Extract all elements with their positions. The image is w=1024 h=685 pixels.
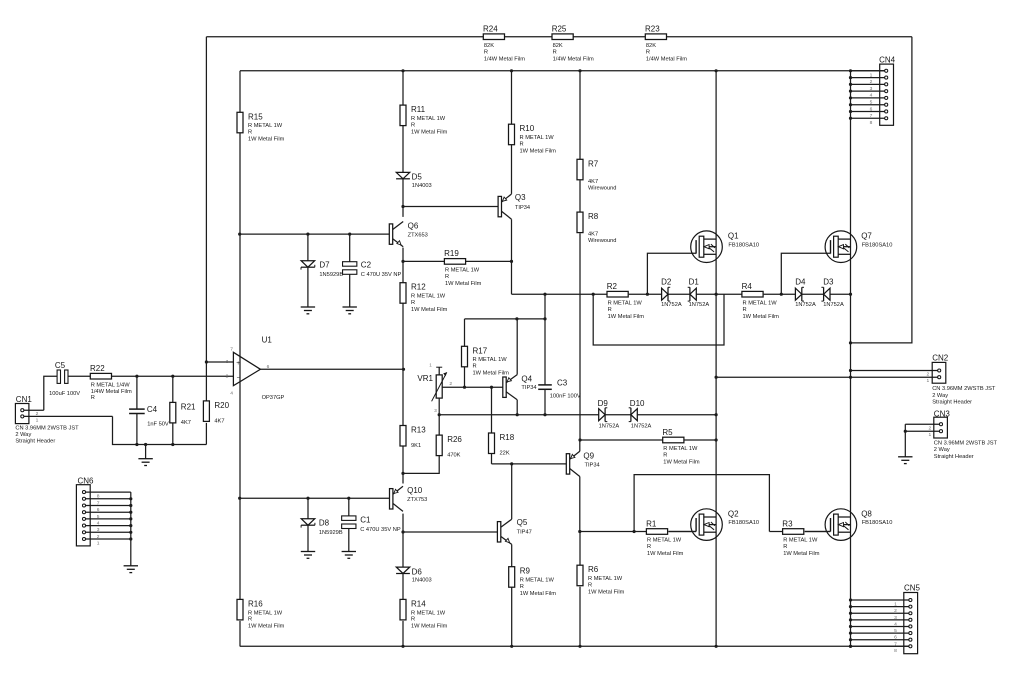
wire left border x=206.4: [205, 37, 207, 362]
svg-text:1N5929B: 1N5929B: [319, 272, 343, 278]
svg-text:R METAL 1W: R METAL 1W: [411, 294, 446, 300]
svg-text:D8: D8: [319, 519, 330, 528]
resistor R13: [400, 426, 426, 450]
svg-text:2: 2: [894, 608, 897, 614]
node + input junction: [205, 360, 208, 363]
svg-text:R METAL 1W: R METAL 1W: [608, 300, 643, 306]
svg-text:TIP34: TIP34: [585, 463, 600, 469]
svg-text:3: 3: [226, 359, 229, 365]
wire R5 row y=440: [580, 439, 716, 441]
transistor Q10: [390, 486, 428, 512]
resistor R23: [645, 25, 687, 63]
svg-text:Q10: Q10: [407, 486, 423, 495]
svg-text:1: 1: [928, 432, 931, 438]
resistor R2: [607, 282, 645, 320]
svg-text:82K: 82K: [646, 43, 656, 49]
wire op-amp - input y=376.2: [112, 375, 234, 377]
wire V+/V- rail x=850.5: [850, 71, 852, 647]
node Q5 collector junction: [510, 462, 513, 465]
svg-text:Q5: Q5: [517, 518, 528, 527]
node junctions Q10 base rail: [238, 497, 350, 500]
svg-text:CN6: CN6: [78, 477, 95, 486]
connector CN6: [76, 477, 130, 547]
svg-text:4K7: 4K7: [214, 418, 224, 424]
resistor R19 with row wire: [403, 249, 512, 287]
svg-text:470K: 470K: [447, 453, 460, 459]
svg-text:R METAL 1W: R METAL 1W: [248, 123, 283, 129]
svg-text:Q7: Q7: [861, 232, 872, 241]
wire vertical x=240 through R15, op-amp, R16: [239, 71, 241, 647]
svg-text:1W Metal Film: 1W Metal Film: [743, 314, 780, 320]
node junctions on Q6 base rail: [238, 233, 351, 236]
connector CN1: [15, 395, 112, 445]
svg-text:R: R: [647, 544, 651, 550]
svg-text:R METAL 1W: R METAL 1W: [783, 538, 818, 544]
svg-text:C 470U 35V NP: C 470U 35V NP: [361, 272, 402, 278]
wire Q10 base rail y=498.2: [240, 497, 390, 499]
svg-text:R: R: [473, 364, 477, 370]
svg-text:R10: R10: [520, 124, 535, 133]
svg-text:R: R: [553, 49, 557, 55]
svg-text:R: R: [91, 395, 95, 401]
svg-text:1/4W Metal Film: 1/4W Metal Film: [553, 56, 594, 62]
svg-text:8: 8: [97, 494, 100, 500]
svg-text:Straight Header: Straight Header: [932, 399, 972, 405]
resistor R16: [237, 599, 285, 629]
capacitor C1: [342, 498, 401, 551]
wire bias row y=414.7: [439, 414, 716, 416]
wire rail to CN2 pin2 y=370.5: [851, 370, 938, 372]
svg-text:R METAL 1W: R METAL 1W: [445, 268, 480, 274]
svg-text:R: R: [663, 453, 667, 459]
svg-text:R METAL 1W: R METAL 1W: [248, 610, 283, 616]
svg-text:R METAL 1W: R METAL 1W: [743, 300, 778, 306]
svg-text:CN 3.96MM 2WSTB JST: CN 3.96MM 2WSTB JST: [15, 425, 79, 431]
svg-text:Wirewound: Wirewound: [588, 185, 616, 191]
svg-text:8: 8: [894, 648, 897, 654]
node junctions bottom rail: [401, 645, 852, 648]
svg-text:1: 1: [926, 378, 929, 384]
resistor R8: [577, 212, 616, 244]
connector CN5: [851, 584, 921, 654]
node R26 to R13 junction: [401, 472, 404, 475]
svg-text:3: 3: [894, 615, 897, 621]
svg-text:R1: R1: [646, 519, 657, 528]
connector CN4: [851, 55, 896, 125]
svg-text:R8: R8: [588, 212, 599, 221]
svg-text:R: R: [588, 583, 592, 589]
svg-text:7: 7: [97, 500, 100, 506]
svg-text:2: 2: [870, 79, 873, 85]
svg-text:R20: R20: [214, 401, 229, 410]
svg-text:1W Metal Film: 1W Metal Film: [647, 551, 684, 557]
ground CN6: [124, 566, 138, 573]
svg-text:R METAL 1W: R METAL 1W: [411, 116, 446, 122]
svg-text:R METAL 1W: R METAL 1W: [520, 578, 555, 584]
svg-text:1/4W Metal Film: 1/4W Metal Film: [91, 389, 132, 395]
resistor R11: [400, 105, 448, 135]
svg-text:5: 5: [870, 100, 873, 106]
diode D10 zener: [629, 399, 652, 429]
svg-text:1W Metal Film: 1W Metal Film: [663, 460, 700, 466]
resistor R18: [489, 387, 515, 464]
svg-text:1W Metal Film: 1W Metal Film: [445, 281, 482, 287]
svg-text:1N4003: 1N4003: [412, 183, 432, 189]
svg-text:D6: D6: [412, 567, 423, 576]
svg-text:6: 6: [870, 106, 873, 112]
ground input network: [138, 445, 152, 466]
svg-text:D3: D3: [823, 278, 834, 287]
diode D8 zener: [301, 498, 343, 551]
svg-text:2: 2: [926, 371, 929, 377]
wire top supply rail y=36.7: [206, 36, 912, 38]
svg-text:R5: R5: [662, 428, 673, 437]
wire bottom rail y=646.3: [240, 645, 909, 647]
svg-text:R21: R21: [181, 402, 196, 411]
diode D9 zener: [598, 399, 620, 429]
svg-text:ZTX653: ZTX653: [408, 233, 428, 239]
svg-text:7: 7: [894, 641, 897, 647]
svg-text:C2: C2: [361, 261, 372, 270]
svg-text:100uF 100V: 100uF 100V: [49, 391, 80, 397]
svg-text:R: R: [411, 617, 415, 623]
svg-text:CN2: CN2: [932, 354, 949, 363]
svg-text:C5: C5: [55, 361, 66, 370]
svg-text:R: R: [248, 617, 252, 623]
wire right border x=911.9 with link to V+ rail: [851, 37, 912, 343]
wire Q6 base rail y=234.1: [240, 233, 390, 235]
transistor Q9: [566, 440, 599, 532]
mosfet Q2: [668, 509, 759, 541]
wire second rail y=70.8: [240, 70, 885, 72]
node junctions R1 row: [578, 530, 636, 533]
svg-text:1N752A: 1N752A: [795, 302, 816, 308]
svg-text:1N752A: 1N752A: [823, 302, 844, 308]
svg-text:D1: D1: [689, 278, 700, 287]
svg-text:1W Metal Film: 1W Metal Film: [411, 307, 448, 313]
svg-text:1W Metal Film: 1W Metal Film: [608, 314, 645, 320]
svg-text:D10: D10: [630, 399, 645, 408]
svg-text:1: 1: [97, 541, 100, 547]
svg-text:1N752A: 1N752A: [631, 423, 652, 429]
svg-text:R: R: [445, 274, 449, 280]
svg-text:R23: R23: [645, 25, 660, 34]
svg-text:TIP34: TIP34: [515, 205, 530, 211]
svg-text:2 Way: 2 Way: [932, 393, 948, 399]
resistor R17: [462, 319, 510, 387]
resistor R6: [577, 532, 625, 647]
svg-text:6: 6: [97, 507, 100, 513]
svg-text:TIP34: TIP34: [521, 385, 536, 391]
svg-text:R16: R16: [248, 599, 263, 608]
resistor R15: [237, 112, 285, 142]
svg-text:CN3: CN3: [934, 410, 951, 419]
svg-text:6: 6: [894, 635, 897, 641]
svg-text:1W Metal Film: 1W Metal Film: [411, 624, 448, 630]
diode D3 zener: [821, 278, 844, 308]
svg-text:D7: D7: [319, 261, 330, 270]
svg-text:R9: R9: [520, 567, 531, 576]
resistor R3: [782, 519, 820, 557]
svg-text:Q6: Q6: [408, 222, 419, 231]
svg-text:2: 2: [226, 373, 229, 379]
wire R1 row y=531.5: [580, 531, 696, 533]
resistor R4: [742, 282, 780, 320]
svg-text:D2: D2: [661, 278, 672, 287]
svg-text:C4: C4: [147, 405, 158, 414]
ground below D8: [301, 552, 315, 559]
svg-text:R13: R13: [411, 426, 426, 435]
svg-text:D9: D9: [598, 399, 609, 408]
svg-text:1N5929B: 1N5929B: [319, 530, 343, 536]
node Q10 collector junction: [401, 530, 404, 533]
svg-text:VR1: VR1: [417, 374, 433, 383]
resistor R9: [509, 567, 557, 597]
wire input ground bus y=444.5: [113, 416, 207, 444]
node CN3 pins tied: [904, 430, 907, 433]
svg-text:1W Metal Film: 1W Metal Film: [783, 551, 820, 557]
svg-text:1: 1: [870, 72, 873, 78]
wire vertical x=580 R7/R8 to R5 row: [579, 71, 581, 440]
svg-text:Q2: Q2: [728, 510, 739, 519]
wire VR1 wiper y=387.2: [442, 386, 503, 388]
wire Q3 base y=206.5: [403, 206, 498, 208]
svg-text:4: 4: [894, 621, 897, 627]
wire op-amp output y=369.3: [260, 368, 403, 370]
wire vertical x=511.5 R10/Q3: [511, 71, 513, 294]
svg-text:R2: R2: [607, 282, 618, 291]
svg-text:2 Way: 2 Way: [934, 447, 950, 453]
svg-text:1N752A: 1N752A: [689, 302, 710, 308]
svg-text:1: 1: [894, 602, 897, 608]
svg-text:−: −: [237, 374, 241, 381]
node junctions on bias row: [438, 413, 718, 416]
svg-text:1W Metal Film: 1W Metal Film: [411, 129, 448, 135]
svg-text:4K7: 4K7: [181, 420, 191, 426]
svg-text:7: 7: [870, 113, 873, 119]
svg-text:R17: R17: [473, 346, 488, 355]
svg-text:TIP47: TIP47: [517, 529, 532, 535]
node junction right border to rail: [849, 341, 852, 344]
op-amp U1: [226, 335, 285, 401]
svg-text:8: 8: [870, 120, 873, 126]
diode D1 zener: [688, 278, 710, 308]
svg-text:C 470U 35V NP: C 470U 35V NP: [360, 527, 401, 533]
svg-text:R METAL 1W: R METAL 1W: [520, 135, 555, 141]
svg-text:1N752A: 1N752A: [599, 423, 620, 429]
wire y=318.9 branch: [465, 294, 546, 319]
node junctions on - input wire: [135, 375, 174, 378]
svg-text:1/4W Metal Film: 1/4W Metal Film: [646, 56, 687, 62]
transistor Q3: [498, 193, 530, 219]
svg-text:R12: R12: [411, 283, 426, 292]
capacitor C2: [343, 234, 402, 307]
wire op-amp + input y=362: [206, 361, 233, 363]
svg-text:3: 3: [97, 527, 100, 533]
wire R3 row y=531.5: [769, 531, 830, 533]
diode D6: [396, 567, 432, 584]
svg-text:R: R: [248, 130, 252, 136]
node junctions R19 row: [401, 260, 513, 263]
wire vertical x=403 column: [402, 71, 404, 647]
svg-text:CN 3.96MM 2WSTB JST: CN 3.96MM 2WSTB JST: [934, 441, 998, 447]
svg-text:FB180SA10: FB180SA10: [862, 242, 893, 248]
resistor R14: [400, 599, 448, 629]
svg-text:FB180SA10: FB180SA10: [728, 242, 759, 248]
node junctions on input ground bus: [135, 443, 174, 446]
ground below C2: [343, 307, 357, 314]
diode D5: [396, 172, 432, 189]
svg-text:C3: C3: [557, 379, 568, 388]
node Q3 base junction: [401, 205, 404, 208]
svg-text:2: 2: [97, 534, 100, 540]
svg-text:R: R: [484, 49, 488, 55]
resistor R20: [203, 362, 229, 445]
svg-text:Wirewound: Wirewound: [588, 238, 616, 244]
svg-text:R METAL 1W: R METAL 1W: [411, 610, 446, 616]
svg-text:R14: R14: [411, 599, 426, 608]
resistor R1: [646, 519, 684, 557]
svg-text:U1: U1: [262, 335, 273, 344]
svg-text:82K: 82K: [553, 43, 563, 49]
transistor Q4: [503, 319, 537, 415]
svg-text:1N4003: 1N4003: [412, 578, 432, 584]
node junctions CN5 bus: [849, 598, 852, 647]
svg-text:R: R: [783, 544, 787, 550]
svg-text:R METAL 1W: R METAL 1W: [663, 446, 698, 452]
transistor Q6: [389, 222, 428, 247]
diode D7 zener: [301, 234, 343, 307]
svg-text:Q1: Q1: [728, 232, 739, 241]
svg-text:1W Metal Film: 1W Metal Film: [248, 624, 285, 630]
wire Q10 collector to Q5 base y=532: [403, 531, 497, 533]
capacitor C3: [538, 319, 581, 415]
svg-text:82K: 82K: [484, 43, 494, 49]
svg-text:3: 3: [870, 86, 873, 92]
svg-text:4K7: 4K7: [588, 232, 598, 238]
svg-text:R7: R7: [588, 159, 599, 168]
svg-text:R: R: [520, 142, 524, 148]
svg-text:R19: R19: [444, 249, 459, 258]
node junctions on gate drive row: [543, 293, 852, 296]
svg-text:R3: R3: [782, 519, 793, 528]
svg-text:Straight Header: Straight Header: [934, 454, 974, 460]
svg-text:R6: R6: [588, 565, 599, 574]
svg-text:5: 5: [97, 514, 100, 520]
resistor R7: [577, 159, 616, 191]
mosfet Q1: [691, 231, 759, 263]
svg-text:R18: R18: [500, 433, 515, 442]
resistor R22: [90, 364, 132, 401]
svg-text:CN1: CN1: [16, 395, 33, 404]
svg-text:D5: D5: [412, 173, 423, 182]
wire Q7 gate link: [781, 253, 830, 294]
node junctions CN4 bus: [849, 76, 852, 120]
node junctions on y=70.8 rail: [401, 69, 852, 72]
mosfet Q7: [825, 231, 892, 263]
svg-text:2 Way: 2 Way: [15, 432, 31, 438]
svg-text:R26: R26: [447, 435, 462, 444]
svg-text:1/4W Metal Film: 1/4W Metal Film: [484, 56, 525, 62]
svg-text:1W Metal Film: 1W Metal Film: [520, 591, 557, 597]
resistor R24: [483, 25, 525, 63]
mosfet Q8: [805, 509, 893, 541]
svg-text:1N752A: 1N752A: [661, 302, 682, 308]
svg-text:100nF 100V: 100nF 100V: [550, 394, 581, 400]
svg-text:R15: R15: [248, 112, 263, 121]
svg-text:2: 2: [36, 411, 39, 417]
svg-text:R: R: [411, 122, 415, 128]
svg-text:Q3: Q3: [515, 193, 526, 202]
node junctions CN2 wires: [715, 369, 853, 379]
svg-text:OP37GP: OP37GP: [262, 395, 285, 401]
svg-text:Q4: Q4: [521, 374, 532, 383]
svg-text:R METAL 1/4W: R METAL 1/4W: [91, 382, 131, 388]
diode D2 zener: [661, 278, 682, 308]
wire output rail x=716.1: [715, 71, 717, 647]
resistor R25: [552, 25, 594, 63]
svg-text:D4: D4: [795, 278, 806, 287]
svg-text:1W Metal Film: 1W Metal Film: [248, 137, 285, 143]
ground CN3: [898, 424, 912, 463]
svg-text:FB180SA10: FB180SA10: [862, 520, 893, 526]
svg-text:+: +: [236, 360, 240, 367]
svg-text:R4: R4: [742, 282, 753, 291]
svg-text:CN4: CN4: [879, 55, 896, 64]
svg-text:9K1: 9K1: [411, 443, 421, 449]
svg-text:5: 5: [894, 628, 897, 634]
wire output to CN2 pin1 y=377.2: [716, 376, 938, 378]
svg-text:R METAL 1W: R METAL 1W: [588, 576, 623, 582]
svg-text:R: R: [743, 307, 747, 313]
svg-text:4: 4: [97, 521, 100, 527]
svg-text:2: 2: [449, 381, 452, 387]
svg-text:4K7: 4K7: [588, 179, 598, 185]
svg-text:Straight Header: Straight Header: [15, 439, 55, 445]
svg-text:1W Metal Film: 1W Metal Film: [520, 148, 557, 154]
variable resistor VR1: [417, 363, 452, 415]
resistor R26: [403, 415, 462, 474]
resistor R10: [509, 124, 557, 154]
capacitor C5: [49, 361, 80, 397]
svg-text:Q8: Q8: [861, 510, 872, 519]
svg-text:22K: 22K: [500, 451, 510, 457]
wire Q1 gate link: [647, 253, 695, 294]
node junctions R5 row: [578, 438, 717, 441]
wire CN6 bus to ground: [130, 492, 132, 566]
diode D4 zener: [795, 278, 816, 308]
svg-text:4: 4: [230, 391, 233, 397]
ground below D7: [301, 307, 315, 314]
wire Q9 base y=463.9: [492, 463, 567, 465]
svg-text:CN5: CN5: [904, 584, 921, 593]
svg-text:R25: R25: [552, 25, 567, 34]
svg-text:4: 4: [870, 93, 873, 99]
svg-text:Q9: Q9: [583, 451, 594, 460]
svg-text:1: 1: [36, 418, 39, 424]
svg-text:FB180SA10: FB180SA10: [728, 520, 759, 526]
node junctions y=318.9: [515, 317, 546, 320]
svg-text:R METAL 1W: R METAL 1W: [473, 357, 508, 363]
node junctions CN6 bus: [129, 497, 132, 540]
transistor Q5: [497, 464, 531, 567]
connector CN3: [905, 410, 997, 460]
node junctions on wiper wire: [463, 386, 493, 389]
wire C5 coupling: [44, 376, 91, 410]
svg-text:R METAL 1W: R METAL 1W: [647, 538, 682, 544]
svg-text:2: 2: [928, 425, 931, 431]
svg-text:C1: C1: [360, 516, 371, 525]
